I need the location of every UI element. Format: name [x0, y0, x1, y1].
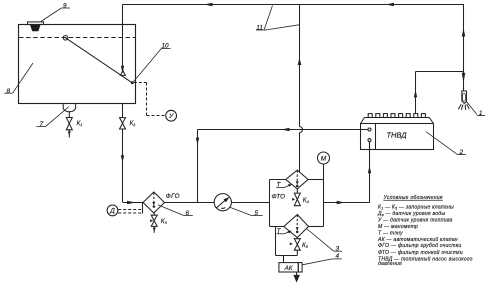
- svg-text:К1: К1: [77, 120, 83, 127]
- svg-text:1: 1: [479, 110, 483, 117]
- svg-text:11: 11: [256, 25, 263, 32]
- svg-text:ФГО: ФГО: [166, 193, 180, 200]
- svg-text:ФТО: ФТО: [272, 194, 286, 201]
- svg-text:АК — автоматический клапан: АК — автоматический клапан: [377, 236, 458, 243]
- svg-text:2: 2: [459, 149, 464, 156]
- svg-text:К2: К2: [130, 120, 137, 127]
- svg-text:К1 — К5 — запорные клапаны: К1 — К5 — запорные клапаны: [378, 205, 454, 211]
- svg-text:3: 3: [336, 246, 340, 253]
- svg-text:4: 4: [336, 253, 340, 260]
- svg-text:Дв — датчик уровня воды: Дв — датчик уровня воды: [377, 211, 445, 217]
- svg-text:9: 9: [63, 3, 67, 10]
- svg-text:5: 5: [255, 210, 259, 217]
- svg-text:10: 10: [162, 43, 170, 50]
- svg-text:8: 8: [7, 88, 11, 95]
- svg-text:ФГО — фильтр грубой очистки: ФГО — фильтр грубой очистки: [378, 242, 461, 249]
- svg-text:К5: К5: [302, 242, 309, 249]
- svg-text:давления: давления: [378, 261, 402, 267]
- svg-text:АК: АК: [284, 265, 293, 272]
- svg-text:Т — тэну: Т — тэну: [378, 231, 403, 237]
- svg-text:К4: К4: [303, 197, 309, 204]
- svg-text:ТНВД: ТНВД: [386, 131, 407, 140]
- svg-text:ФТО — фильтр тонкой очистки: ФТО — фильтр тонкой очистки: [378, 249, 463, 256]
- svg-text:6: 6: [186, 210, 190, 217]
- svg-text:У: У: [168, 113, 174, 120]
- svg-text:К3: К3: [161, 218, 168, 225]
- svg-text:М: М: [321, 155, 327, 162]
- svg-text:7: 7: [40, 121, 44, 128]
- svg-text:Условные обозначения: Условные обозначения: [384, 195, 443, 201]
- svg-text:У — датчик уровня топлива: У — датчик уровня топлива: [378, 218, 453, 224]
- svg-text:Д: Д: [109, 208, 115, 215]
- svg-text:М — манометр: М — манометр: [378, 224, 418, 230]
